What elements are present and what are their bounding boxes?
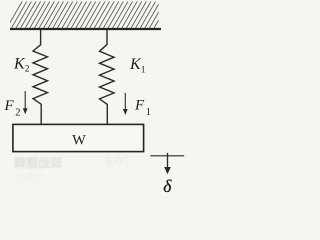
displacement arrow delta: [164, 153, 171, 174]
bleed-through text row 2 (mirrored fainter): [14, 171, 44, 184]
svg-text:F: F: [4, 98, 15, 114]
svg-text:现劲建辑: 现劲建辑: [14, 155, 62, 170]
svg-text:1: 1: [141, 66, 146, 76]
label K2: [13, 56, 30, 75]
svg-text:δ: δ: [163, 176, 172, 196]
svg-text:2: 2: [25, 65, 30, 75]
label K1: [129, 56, 146, 76]
svg-text:70-6: 70-6: [105, 153, 129, 168]
svg-text:F: F: [134, 98, 145, 114]
ceiling hatching (fixed support): [6, 1, 175, 30]
label F1: [134, 98, 151, 119]
mass box W: [13, 124, 144, 151]
spring K1: [100, 29, 115, 125]
label F2: [4, 98, 21, 119]
svg-text:2: 2: [15, 108, 20, 119]
bleed-through numerals near box: [105, 153, 129, 168]
bleed-through text row 1 (mirrored faint): [14, 155, 62, 170]
svg-text:方程式: 方程式: [14, 171, 44, 184]
force arrow F2: [23, 91, 28, 114]
datum line: [150, 155, 184, 157]
svg-text:W: W: [72, 133, 86, 149]
spring K2: [33, 29, 48, 125]
ceiling line: [10, 28, 161, 30]
force arrow F1: [123, 93, 128, 115]
svg-text:1: 1: [146, 107, 151, 118]
